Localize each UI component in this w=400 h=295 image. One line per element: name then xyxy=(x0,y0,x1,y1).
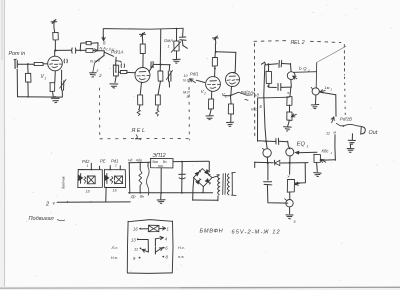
svg-text:11: 11 xyxy=(134,246,138,251)
svg-text:N.C: N.C xyxy=(90,58,97,63)
svg-text:Рот in: Рот in xyxy=(9,51,26,57)
svg-text:2: 2 xyxy=(98,73,102,78)
svg-text:2: 2 xyxy=(330,88,333,92)
svg-text:Вх: Вх xyxy=(163,160,167,164)
svg-text:1: 1 xyxy=(44,77,46,81)
svg-text:ЕQ: ЕQ xyxy=(297,142,306,148)
svg-text:ЯЕL 2: ЯЕL 2 xyxy=(290,40,305,46)
svg-text:×: × xyxy=(287,91,290,96)
svg-text:Н.в.: Н.в. xyxy=(111,255,118,260)
svg-text:2: 2 xyxy=(224,95,227,99)
svg-text:600: 600 xyxy=(158,164,163,168)
svg-text:1: 1 xyxy=(87,164,89,168)
svg-text:1: 1 xyxy=(307,145,309,149)
svg-text:1b: 1b xyxy=(113,189,117,193)
svg-text:РЕ: РЕ xyxy=(100,159,106,164)
svg-text:16: 16 xyxy=(133,227,138,232)
svg-text:Л.с.: Л.с. xyxy=(111,245,119,250)
svg-text:Чдя: Чдя xyxy=(136,159,142,163)
svg-text:×: × xyxy=(287,174,290,179)
svg-text:1: 1 xyxy=(168,44,170,49)
svg-text:Др: Др xyxy=(130,195,136,199)
svg-text:1: 1 xyxy=(115,164,117,168)
svg-text:Оut: Оut xyxy=(369,130,378,136)
svg-text:Рd/1А: Рd/1А xyxy=(111,50,124,55)
svg-text:1b: 1b xyxy=(86,190,90,194)
svg-text:Рd/1: Рd/1 xyxy=(190,72,199,77)
svg-text:10: 10 xyxy=(184,74,188,78)
svg-text:Рd/2В: Рd/2В xyxy=(340,117,352,122)
svg-text:Подвигал: Подвигал xyxy=(29,216,55,222)
svg-text:1м: 1м xyxy=(325,85,330,90)
svg-text:1: 1 xyxy=(167,226,169,231)
svg-text:Чд: Чд xyxy=(128,159,132,163)
svg-text:2: 2 xyxy=(203,92,206,96)
svg-text:БМВФН: БМВФН xyxy=(200,229,224,235)
svg-text:Кбс: Кбс xyxy=(322,148,330,153)
svg-text:Вь: Вь xyxy=(140,195,144,199)
svg-text:13: 13 xyxy=(131,238,136,243)
svg-text:Рd/2А: Рd/2А xyxy=(241,90,254,95)
svg-text:Н.с.: Н.с. xyxy=(178,245,185,250)
svg-text:5: 5 xyxy=(294,220,296,224)
svg-text:датчик: датчик xyxy=(62,176,66,189)
svg-text:з: з xyxy=(96,68,99,73)
svg-text:GмА: GмА xyxy=(164,38,173,43)
svg-text:11: 11 xyxy=(326,131,330,135)
svg-text:65V-2-М-Ж 12: 65V-2-М-Ж 12 xyxy=(232,230,281,236)
svg-text:н.в.: н.в. xyxy=(178,254,185,259)
svg-text:Я Е L: Я Е L xyxy=(131,128,146,134)
svg-text:Ь: Ь xyxy=(299,66,302,71)
